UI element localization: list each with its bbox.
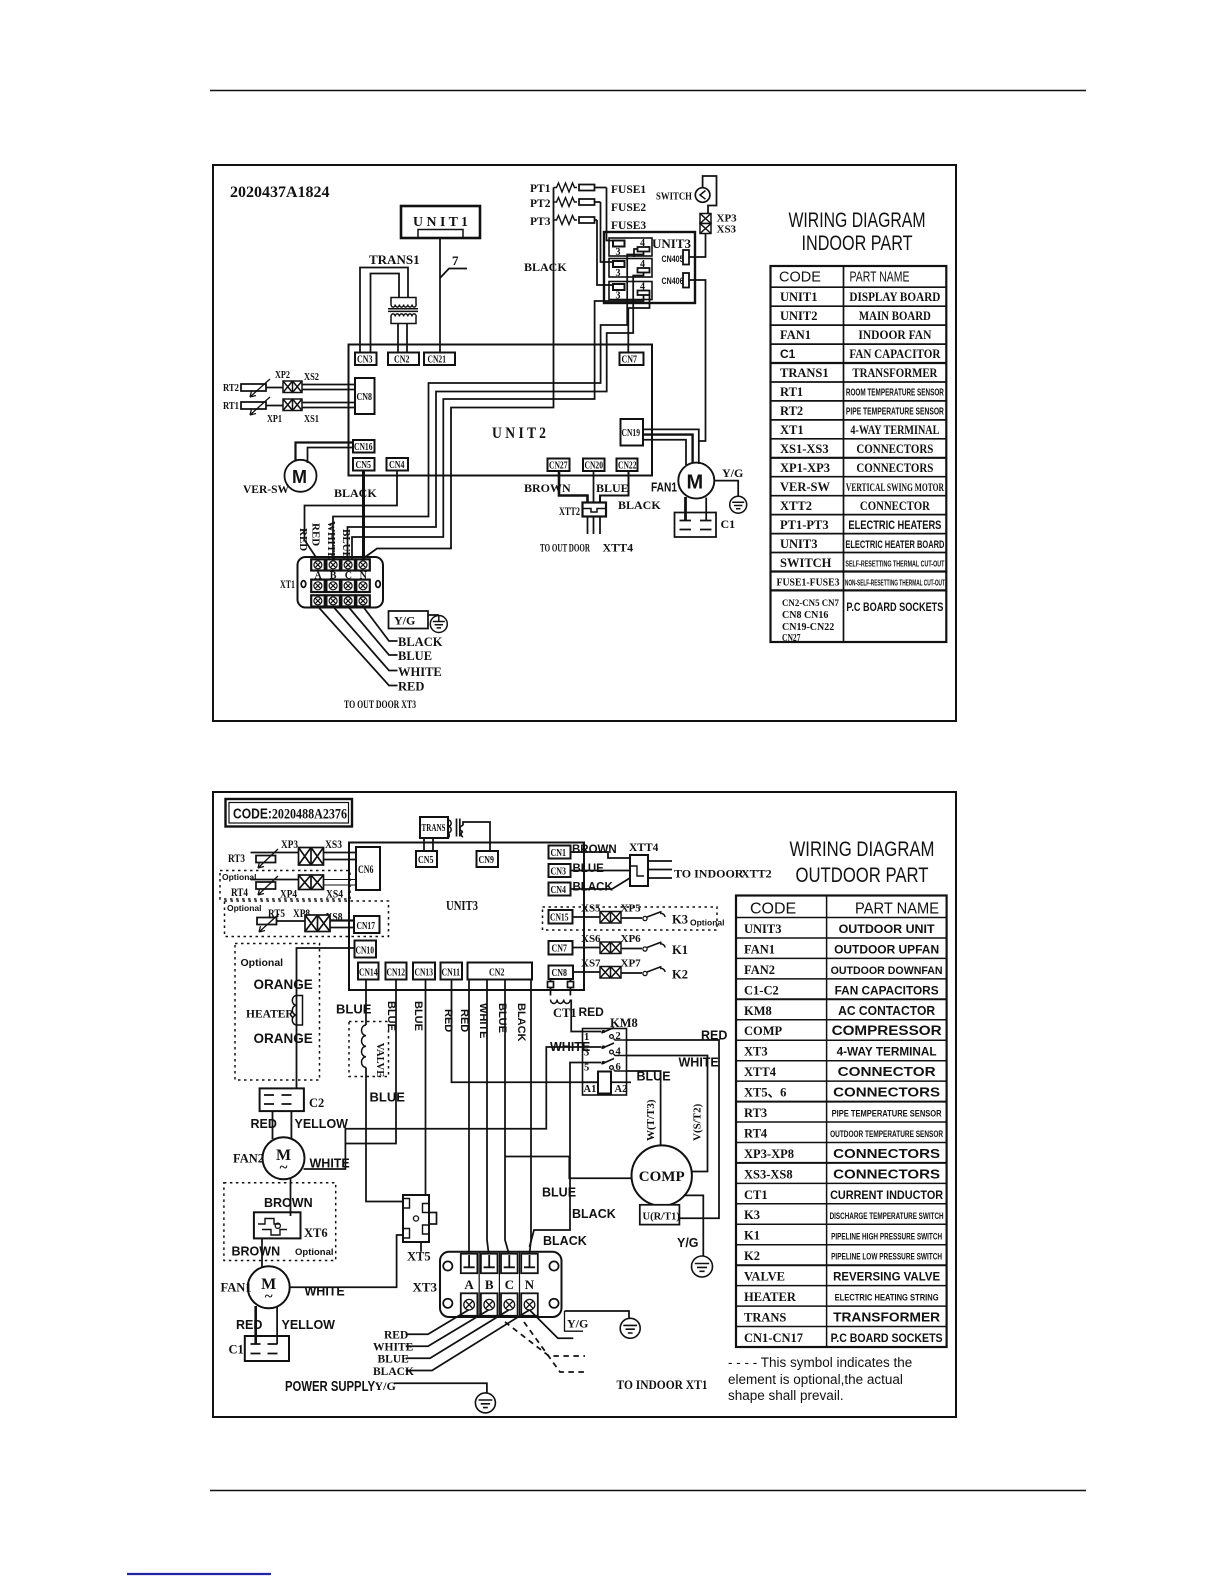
valve coil <box>361 1025 366 1067</box>
fan capacitor C1 outdoor <box>245 1336 289 1361</box>
svg-text:ELECTRIC HEATER BOARD: ELECTRIC HEATER BOARD <box>845 539 944 551</box>
wire XT6 to FAN1 <box>261 1238 263 1266</box>
svg-text:CONNECTORS: CONNECTORS <box>856 442 933 456</box>
footer link underline <box>127 1573 271 1575</box>
svg-text:CONNECTORS: CONNECTORS <box>833 1085 940 1100</box>
XT1 terminal squares top row <box>311 559 370 570</box>
wire heater board out 2 <box>348 273 644 560</box>
svg-text:RED: RED <box>579 1005 605 1019</box>
socket CN5 <box>416 851 437 867</box>
svg-text:XP3-XP8: XP3-XP8 <box>744 1147 794 1161</box>
wire FAN1 white to XT5 <box>290 1235 403 1287</box>
socket CN7 outdoor <box>549 941 573 955</box>
svg-text:Y/G: Y/G <box>567 1317 588 1331</box>
svg-text:RT3: RT3 <box>744 1106 767 1120</box>
wire CN2 blue to XT3 C and compressor <box>505 980 509 1254</box>
fuse FUSE3 <box>579 217 595 223</box>
svg-text:V(S/T2): V(S/T2) <box>692 1103 704 1141</box>
wire XS3 to CN405 <box>689 234 706 258</box>
transformer TRANS1 symbol <box>388 298 418 324</box>
svg-text:RED: RED <box>310 523 322 546</box>
code box CODE:2020488A2376 <box>226 799 353 827</box>
XT1 screws top row <box>314 561 367 569</box>
wire CN406 right and down <box>689 280 706 441</box>
svg-text:ELECTRIC HEATERS: ELECTRIC HEATERS <box>848 518 941 532</box>
transformer TRANS <box>420 817 448 838</box>
svg-text:CN7: CN7 <box>552 944 568 955</box>
electric heater board UNIT3 <box>604 232 695 303</box>
outdoor unit board UNIT3 <box>349 843 584 991</box>
svg-text:CN19-CN22: CN19-CN22 <box>782 622 834 633</box>
svg-text:TRANS: TRANS <box>422 823 446 834</box>
wire TRANS1 inner loop <box>371 274 400 353</box>
svg-text:CT1: CT1 <box>553 1006 577 1020</box>
svg-text:C2: C2 <box>309 1096 324 1110</box>
XT3 tabs top <box>461 1254 538 1274</box>
svg-text:BROWN: BROWN <box>232 1245 281 1259</box>
svg-text:TRANS1: TRANS1 <box>780 366 829 380</box>
svg-text:CN20: CN20 <box>585 461 604 472</box>
svg-text:A2: A2 <box>615 1084 628 1095</box>
svg-text:RT4: RT4 <box>231 887 248 899</box>
wire CN15 to XS5 <box>573 916 601 918</box>
wire TRANS1 outer loop <box>360 268 408 353</box>
socket CN3 outdoor <box>549 864 571 877</box>
wire XT5 stub down <box>420 1242 422 1252</box>
wire UNIT1 to CN21 <box>439 238 441 353</box>
heater board row 3 <box>609 282 652 300</box>
svg-text:FUSE1: FUSE1 <box>611 184 646 196</box>
wire CN3 blue to XTT4 <box>571 870 631 872</box>
fan capacitor C2 <box>260 1088 304 1111</box>
svg-text:XP3: XP3 <box>281 839 298 851</box>
svg-text:CN4: CN4 <box>551 885 567 896</box>
svg-text:WIRING DIAGRAM: WIRING DIAGRAM <box>789 209 926 232</box>
svg-text:Optional: Optional <box>222 872 256 882</box>
wire TRANS to CN5 <box>424 838 433 851</box>
svg-text:P.C BOARD SOCKETS: P.C BOARD SOCKETS <box>831 1333 943 1345</box>
svg-text:OUTDOOR UNIT: OUTDOOR UNIT <box>839 922 936 936</box>
svg-text:CN8: CN8 <box>552 968 568 979</box>
svg-text:CONNECTORS: CONNECTORS <box>833 1146 940 1161</box>
svg-text:XT3: XT3 <box>413 1280 438 1295</box>
svg-text:U N I T 1: U N I T 1 <box>413 215 468 230</box>
wire CN4 black to XTT4 <box>571 878 631 889</box>
wire KM8 contact5 black <box>530 1063 583 1248</box>
svg-text:MAIN BOARD: MAIN BOARD <box>859 309 931 323</box>
svg-text:OUTDOOR PART: OUTDOOR PART <box>796 864 929 887</box>
wire N screw to earth Y/G <box>530 1310 574 1338</box>
svg-text:RED: RED <box>384 1330 408 1342</box>
svg-text:W(T/T3): W(T/T3) <box>645 1099 657 1141</box>
wire CN22 black <box>600 471 629 503</box>
svg-text:CN27: CN27 <box>549 461 568 472</box>
svg-text:7: 7 <box>452 253 459 268</box>
svg-text:SWITCH: SWITCH <box>656 191 692 203</box>
svg-text:K3: K3 <box>672 913 688 927</box>
socket CN20 <box>583 459 605 472</box>
parts table frame <box>736 896 947 1348</box>
svg-text:VER-SW: VER-SW <box>243 484 290 496</box>
svg-text:RT3: RT3 <box>228 853 245 865</box>
svg-text:ORANGE: ORANGE <box>254 977 313 992</box>
svg-text:BLACK: BLACK <box>543 1234 587 1248</box>
svg-text:WIRING DIAGRAM: WIRING DIAGRAM <box>790 838 935 861</box>
svg-text:K3: K3 <box>744 1208 760 1222</box>
connector XS5/XP5 <box>600 912 621 924</box>
socket CN16 <box>353 440 375 453</box>
wire CN2 white to XT3 B <box>487 980 489 1254</box>
wire N screw to power supply black <box>406 1310 530 1371</box>
outdoor down fan FAN2 <box>263 1137 305 1179</box>
svg-text:3: 3 <box>616 291 621 302</box>
svg-text:XP4: XP4 <box>280 889 297 901</box>
indoor left sensors <box>223 370 355 496</box>
svg-text:XT6: XT6 <box>304 1226 328 1240</box>
wire KM8 contact4 white to compressor V <box>627 1056 708 1172</box>
svg-text:FAN1: FAN1 <box>780 328 811 342</box>
svg-text:XP1-XP3: XP1-XP3 <box>780 461 830 475</box>
svg-text:C: C <box>505 1277 514 1292</box>
terminal block XT1 <box>298 557 384 608</box>
svg-text:XP2: XP2 <box>275 370 290 381</box>
svg-text:RT1: RT1 <box>780 385 803 399</box>
socket CN9 <box>477 851 499 867</box>
wire CN2 black to XT3 N <box>530 980 532 1254</box>
reversing valve VALVE optional box <box>349 1022 389 1077</box>
svg-text:C1: C1 <box>780 347 796 361</box>
svg-text:TO OUT DOOR: TO OUT DOOR <box>540 541 590 555</box>
socket CN14 <box>358 963 379 980</box>
svg-text:CONNECTORS: CONNECTORS <box>856 461 933 475</box>
svg-text:XTT2: XTT2 <box>780 499 812 513</box>
svg-text:VALVE: VALVE <box>744 1270 785 1284</box>
svg-text:BLUE: BLUE <box>573 863 605 875</box>
svg-text:XS3: XS3 <box>717 224 737 236</box>
svg-text:M: M <box>292 467 307 487</box>
outdoor CT1 and KM8 <box>304 979 728 1277</box>
svg-text:CN3: CN3 <box>551 867 567 878</box>
svg-text:OUTDOOR DOWNFAN: OUTDOOR DOWNFAN <box>831 965 943 977</box>
svg-text:XS1-XS3: XS1-XS3 <box>780 442 829 456</box>
ground symbol <box>730 496 747 513</box>
wire valve to XT5 <box>366 1068 403 1202</box>
wire CN2 red to XT3 A <box>468 980 470 1254</box>
svg-text:TRANSFORMER: TRANSFORMER <box>852 366 938 380</box>
svg-text:PIPE TEMPERATURE SENSOR: PIPE TEMPERATURE SENSOR <box>832 1109 942 1120</box>
svg-text:RT2: RT2 <box>223 383 239 394</box>
svg-text:PT1: PT1 <box>530 183 551 195</box>
svg-text:YELLOW: YELLOW <box>295 1117 349 1131</box>
svg-text:4-WAY TERMINAL: 4-WAY TERMINAL <box>850 423 939 437</box>
page bottom rule <box>210 1490 1086 1492</box>
svg-text:RT2: RT2 <box>780 404 803 418</box>
svg-text:BLUE: BLUE <box>637 1070 671 1084</box>
svg-text:Optional: Optional <box>295 1247 334 1258</box>
svg-text:BLUE: BLUE <box>340 529 352 559</box>
wire FUSE1 down to heater board <box>607 188 614 241</box>
svg-text:C1: C1 <box>721 517 736 531</box>
socket CN3 <box>355 353 377 366</box>
svg-text:PIPELINE HIGH PRESSURE SWITCH: PIPELINE HIGH PRESSURE SWITCH <box>831 1231 942 1241</box>
connector XT5 <box>403 1195 429 1242</box>
svg-text:3: 3 <box>616 268 621 279</box>
svg-text:TRANSFORMER: TRANSFORMER <box>833 1310 941 1325</box>
svg-text:K1: K1 <box>672 943 688 957</box>
wire B terminal to out door WHITE <box>333 607 397 671</box>
wire A terminal to out door RED <box>318 607 398 686</box>
svg-text:CN405: CN405 <box>662 254 685 265</box>
svg-text:XT3: XT3 <box>744 1045 768 1059</box>
svg-text:K1: K1 <box>744 1229 760 1243</box>
ground symbol <box>620 1318 640 1338</box>
svg-text:CN2: CN2 <box>394 355 410 366</box>
socket CN19 <box>621 419 644 446</box>
svg-text:~: ~ <box>265 1289 273 1305</box>
svg-text:CN22: CN22 <box>618 461 637 472</box>
wire CN8 to XS7 <box>573 971 600 973</box>
svg-text:CN5: CN5 <box>356 460 372 471</box>
XT1 terminal squares bottom row <box>311 595 370 606</box>
socket CN27 <box>548 459 570 472</box>
terminal block XT3 <box>440 1252 562 1317</box>
socket CN12 <box>386 963 407 980</box>
svg-text:COMP: COMP <box>639 1169 685 1185</box>
svg-text:BLUE: BLUE <box>378 1354 410 1366</box>
svg-text:COMPRESSOR: COMPRESSOR <box>832 1023 942 1038</box>
heater board row 2 <box>609 259 652 278</box>
wire heater board to CN7 <box>628 249 649 353</box>
svg-text:XS3-XS8: XS3-XS8 <box>744 1167 793 1181</box>
optional box RT4 <box>220 871 350 900</box>
XT1 screws bottom row <box>314 597 367 605</box>
svg-text:PT1-PT3: PT1-PT3 <box>780 518 829 532</box>
wire XS4 to CN6 <box>324 879 357 881</box>
socket CN4 <box>387 458 409 471</box>
svg-text:FAN2: FAN2 <box>744 963 775 977</box>
compressor COMP <box>632 1145 692 1205</box>
svg-text:CN2-CN5 CN7: CN2-CN5 CN7 <box>782 599 839 609</box>
svg-text:PIPE TEMPERATURE SENSOR: PIPE TEMPERATURE SENSOR <box>846 407 945 418</box>
socket CN4 outdoor <box>549 883 571 896</box>
wire CN20 blue <box>593 471 595 503</box>
connector XTT2 <box>583 503 607 517</box>
svg-text:CN21: CN21 <box>428 355 447 366</box>
outdoor wire bundle and left components <box>221 980 632 1362</box>
svg-text:5: 5 <box>584 1063 589 1074</box>
svg-text:K2: K2 <box>744 1249 760 1263</box>
outdoor table <box>736 838 947 1347</box>
svg-text:RED: RED <box>297 528 309 551</box>
wire CN7 to XS6 <box>573 947 601 949</box>
svg-text:4: 4 <box>640 238 645 249</box>
wire CN12 blue down <box>345 980 396 1144</box>
svg-text:CODE: CODE <box>779 270 821 286</box>
svg-text:FAN CAPACITOR: FAN CAPACITOR <box>849 347 941 361</box>
svg-text:BLACK: BLACK <box>572 1207 616 1221</box>
svg-text:~: ~ <box>280 1160 288 1176</box>
svg-text:BLUE: BLUE <box>370 1090 406 1105</box>
svg-text:FAN1: FAN1 <box>651 480 677 495</box>
svg-text:XS4: XS4 <box>326 889 343 901</box>
wire XS8 to CN17 <box>330 919 354 921</box>
svg-text:CN8: CN8 <box>357 392 373 403</box>
svg-text:RED: RED <box>236 1318 262 1332</box>
svg-text:BLACK: BLACK <box>398 635 443 649</box>
svg-text:XP5: XP5 <box>621 903 642 915</box>
wire FAN1 to ground <box>714 481 738 497</box>
svg-text:BLUE: BLUE <box>496 1003 508 1033</box>
socket CN1 <box>549 846 571 859</box>
svg-text:M: M <box>687 472 704 494</box>
svg-text:RT4: RT4 <box>744 1127 768 1141</box>
socket CN22 <box>617 459 638 472</box>
wire N terminal to out door BLACK <box>363 607 398 642</box>
svg-text:SWITCH: SWITCH <box>780 556 832 570</box>
svg-text:XTT4: XTT4 <box>629 842 659 854</box>
indoor XT1 terminal and bottom wires <box>280 471 447 712</box>
connector XP2/XS2 <box>283 381 302 393</box>
socket CN21 <box>424 353 455 366</box>
wire FUSE3 down to heater board <box>597 220 613 285</box>
svg-text:CONNECTOR: CONNECTOR <box>838 1064 937 1079</box>
svg-text:HEATER: HEATER <box>744 1290 797 1304</box>
svg-text:XS1: XS1 <box>304 414 319 425</box>
svg-text:KM8: KM8 <box>744 1004 772 1018</box>
svg-text:XS7: XS7 <box>581 958 601 970</box>
socket CN8 <box>355 378 375 414</box>
svg-text:TO OUT DOOR XT3: TO OUT DOOR XT3 <box>344 697 416 711</box>
wire CN1 brown to XTT4 <box>571 852 631 858</box>
svg-text:TRANS: TRANS <box>744 1311 786 1325</box>
svg-text:FAN1: FAN1 <box>744 942 775 956</box>
wire transformer to CN2 <box>397 324 399 353</box>
svg-text:4: 4 <box>640 282 645 293</box>
pipeline low pressure switch K2 <box>621 972 642 974</box>
optional box RT5 <box>225 901 389 937</box>
XT1 terminal squares middle row <box>311 580 370 592</box>
svg-text:YELLOW: YELLOW <box>282 1318 336 1332</box>
wire C screw to power supply blue <box>406 1310 509 1358</box>
connector XP8/XS8 <box>305 915 330 932</box>
svg-text:UNIT3: UNIT3 <box>780 537 818 551</box>
svg-text:UNIT3: UNIT3 <box>744 922 782 936</box>
svg-text:XP6: XP6 <box>621 933 642 945</box>
wire FAN1 to capacitor C1 <box>684 497 687 521</box>
svg-text:CN11: CN11 <box>442 968 461 979</box>
svg-text:CURRENT INDUCTOR: CURRENT INDUCTOR <box>830 1188 943 1202</box>
svg-text:Y/G: Y/G <box>375 1379 396 1393</box>
socket CN15 <box>549 910 573 924</box>
svg-text:BLACK: BLACK <box>618 498 661 512</box>
svg-text:XS2: XS2 <box>304 372 319 383</box>
connector XS7/XP7 <box>600 967 621 979</box>
socket CN8 outdoor <box>549 966 574 980</box>
svg-text:UNIT3: UNIT3 <box>446 899 478 914</box>
svg-text:FUSE1-FUSE3: FUSE1-FUSE3 <box>777 577 840 589</box>
wire heater board out 3 <box>352 296 644 560</box>
svg-text:3: 3 <box>616 247 621 258</box>
svg-text:A: A <box>464 1277 474 1292</box>
svg-text:U(R/T1): U(R/T1) <box>643 1212 681 1223</box>
socket CN6 <box>356 847 380 890</box>
svg-text:CODE:2020488A2376: CODE:2020488A2376 <box>233 807 347 823</box>
svg-text:2020437A1824: 2020437A1824 <box>230 184 330 201</box>
svg-text:AC CONTACTOR: AC CONTACTOR <box>838 1004 935 1018</box>
svg-text:BROWN: BROWN <box>264 1196 313 1210</box>
wire BLACK rail from PT1 down into UNIT2 <box>365 188 554 558</box>
indoor FAN1 area <box>524 429 747 554</box>
svg-text:CN15: CN15 <box>550 913 569 924</box>
svg-text:XS3: XS3 <box>325 839 342 851</box>
discharge temperature switch K3 <box>621 917 642 919</box>
svg-text:B: B <box>485 1277 494 1292</box>
wire B screw to power supply white <box>406 1310 489 1346</box>
svg-text:RED: RED <box>701 1029 727 1043</box>
svg-text:WHITE: WHITE <box>325 521 337 560</box>
wire heater board out 1 <box>333 252 644 560</box>
svg-text:- - - - This symbol indicates: - - - - This symbol indicates the <box>728 1355 912 1370</box>
svg-text:DISCHARGE TEMPERATURE SWITCH: DISCHARGE TEMPERATURE SWITCH <box>830 1211 944 1221</box>
wire CN14 blue to valve <box>365 980 367 1026</box>
svg-text:FAN1: FAN1 <box>221 1281 252 1295</box>
svg-text:CN12: CN12 <box>387 968 406 979</box>
dashed wire to indoor 2 <box>524 1322 585 1372</box>
socket CN5 <box>353 458 375 471</box>
svg-text:VER-SW: VER-SW <box>780 480 831 494</box>
wire FAN2 to XT6 <box>290 1179 292 1217</box>
svg-text:OUTDOOR UPFAN: OUTDOOR UPFAN <box>834 942 939 956</box>
outdoor diagram frame <box>213 792 956 1417</box>
svg-text:CN27: CN27 <box>782 633 801 644</box>
wire XS2 to CN8 <box>302 384 355 386</box>
wire KM8 A2 stub <box>627 1081 632 1083</box>
wire CN4 red to A terminal <box>305 471 398 559</box>
socket CN2 <box>388 353 419 366</box>
svg-text:INDOOR FAN: INDOOR FAN <box>858 328 931 342</box>
svg-text:OUTDOOR TEMPERATURE SENSOR: OUTDOOR TEMPERATURE SENSOR <box>830 1129 943 1139</box>
wire CN10 orange to heater and C2 <box>297 948 355 1089</box>
svg-text:PIPELINE LOW PRESSURE SWITCH: PIPELINE LOW PRESSURE SWITCH <box>831 1252 942 1262</box>
indoor table <box>771 209 947 642</box>
svg-text:CN9: CN9 <box>479 855 495 866</box>
svg-text:XT1: XT1 <box>780 423 804 437</box>
svg-text:XT5、6: XT5、6 <box>744 1086 786 1100</box>
svg-text:CN3: CN3 <box>357 355 373 366</box>
svg-text:WHITE: WHITE <box>310 1157 350 1171</box>
wire CN27 brown <box>559 471 588 503</box>
svg-text:CN1: CN1 <box>551 848 567 859</box>
wire A screw to power supply red <box>406 1310 469 1334</box>
svg-text:BLUE: BLUE <box>596 481 629 495</box>
socket CN10 <box>355 941 377 958</box>
ground symbol <box>428 614 439 616</box>
wire KM8 contact2 red to compressor U <box>627 1040 720 1218</box>
svg-text:XP7: XP7 <box>621 958 642 970</box>
svg-text:BROWN: BROWN <box>524 481 571 495</box>
svg-text:VALVE: VALVE <box>374 1043 385 1077</box>
fuse FUSE2 <box>579 199 595 205</box>
XT1 screws middle row <box>314 582 367 590</box>
svg-text:ORANGE: ORANGE <box>254 1031 313 1046</box>
wire switch loop <box>703 176 717 214</box>
vertical swing motor VER-SW <box>285 460 317 492</box>
svg-text:UNIT2: UNIT2 <box>780 309 818 323</box>
svg-text:BLACK: BLACK <box>515 1003 527 1042</box>
wire C terminal to out door BLUE <box>348 607 397 656</box>
svg-text:VERTICAL SWING MOTOR: VERTICAL SWING MOTOR <box>846 482 944 494</box>
fan capacitor C1 <box>675 513 717 538</box>
